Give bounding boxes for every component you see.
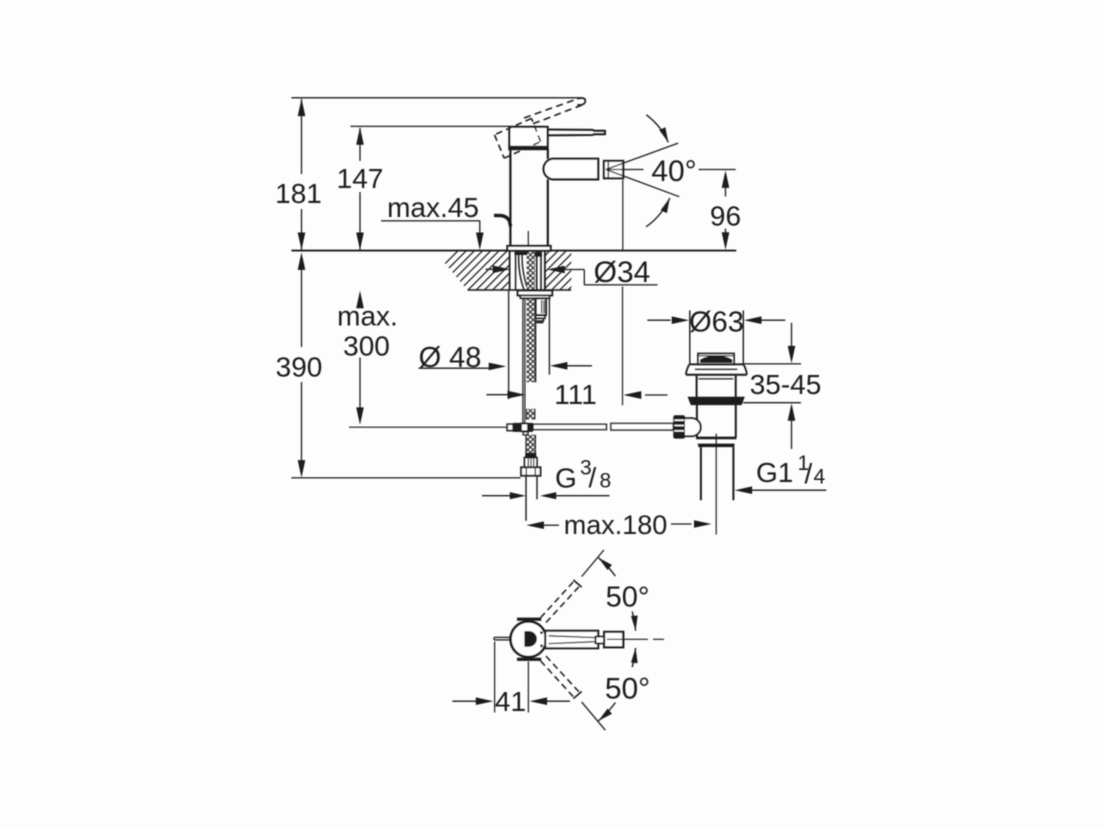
aerator (side view) [604, 161, 623, 178]
plan view upper tube dashed [541, 580, 582, 623]
faucet body right edge lower [547, 179, 549, 246]
svg-text:181: 181 [275, 178, 322, 209]
dim max300 [337, 291, 398, 425]
countertop hatching left of hole [407, 251, 598, 294]
drain body bottom rim [696, 438, 737, 447]
dim G3/8 [482, 492, 610, 499]
faucet base plate [507, 246, 550, 251]
plan view upper tube axis line [582, 550, 604, 577]
supply hose upper (braided) [527, 298, 536, 382]
shank rod guide line [540, 252, 542, 290]
dim 35-45 [743, 323, 821, 449]
countertop surface line [291, 250, 736, 252]
projection line diameter34 to dim111 [622, 287, 624, 406]
pop-up rod at faucet (hook) [494, 215, 511, 226]
faucet body right edge upper [547, 149, 549, 159]
dim max.180 [526, 510, 711, 540]
dim diameter63 [647, 307, 785, 339]
dim G1 1/4 [735, 486, 827, 494]
hose pipe stub right wall [536, 476, 538, 500]
dim 147 extension+arrows [337, 127, 384, 250]
dim 390 [276, 252, 323, 477]
svg-text:147: 147 [337, 163, 384, 194]
projection line spout outlet to deck [622, 180, 624, 251]
dimension line 147 reference (cap top) [350, 125, 509, 127]
plan view centerline [607, 638, 664, 640]
svg-text:8: 8 [600, 470, 612, 493]
pull rod horizontal segment 2 [611, 423, 673, 430]
drain side knob (knurled) [673, 415, 685, 438]
svg-text:4: 4 [814, 466, 826, 489]
plan view spout inner tube [549, 636, 596, 644]
rod connector on shank [536, 298, 546, 322]
svg-text:50°: 50° [606, 582, 650, 614]
shank inner line right [536, 252, 538, 290]
drain centerline [715, 434, 717, 535]
svg-text:G1: G1 [756, 457, 793, 488]
dim max300 reference line / pull rod horizontal [349, 426, 507, 428]
label max.45 with leader [381, 192, 484, 250]
shank sleeve line [515, 252, 517, 290]
lever handle (solid) [547, 130, 605, 136]
lever handle dashed (raised position) - cap outline [495, 118, 541, 158]
threaded shank crosshatch (in deck) [527, 252, 535, 290]
svg-text:Ø63: Ø63 [689, 307, 744, 339]
countertop underside line [468, 289, 572, 291]
plan view lower tube dashed [541, 656, 582, 699]
faucet cap (handle base) [509, 127, 547, 149]
svg-text:max.: max. [337, 301, 398, 332]
drain knob dome [701, 357, 732, 363]
plan view rod stub [494, 637, 510, 640]
locknut [518, 291, 553, 299]
countertop hatching right of hole [507, 251, 665, 294]
dim 50deg lower [598, 648, 650, 721]
svg-text:G: G [555, 463, 577, 494]
svg-text:390: 390 [276, 352, 323, 383]
dim 181 extension+arrows [275, 99, 322, 250]
plan view lower tube axis line [582, 702, 606, 730]
plan view flats [517, 618, 541, 661]
svg-text:/: / [589, 462, 597, 493]
svg-text:41: 41 [495, 686, 526, 717]
plan view body circle [511, 621, 547, 657]
dim 390 bottom reference line [291, 477, 520, 479]
dim 50deg upper [598, 558, 649, 631]
drain body below seal [697, 405, 736, 438]
pull rod horizontal segment 1 [533, 424, 606, 429]
drain neck [697, 376, 736, 398]
dimension line top reference (handle top) [291, 97, 582, 99]
spray fan lower line [606, 170, 679, 197]
40deg lower arc with arrow [646, 198, 670, 227]
hose ferrule band [525, 453, 536, 458]
hose pipe stub left wall [525, 476, 527, 521]
dim 96 [710, 170, 741, 249]
label G1 1/4 [756, 452, 826, 489]
plan view spout stub [596, 637, 607, 644]
hose curve in shank 2 [522, 253, 527, 287]
label 40 degrees [651, 155, 696, 188]
svg-text:50°: 50° [605, 673, 650, 706]
svg-text:max.180: max.180 [564, 510, 668, 540]
drain flange (trumpet) [686, 364, 747, 374]
plan view cartridge D-mark [525, 632, 536, 647]
extension line dia48 left [508, 290, 510, 399]
plan view spout [545, 631, 598, 649]
rod clamp assembly [507, 423, 533, 432]
extension line dia48 right [548, 298, 550, 375]
svg-text:300: 300 [343, 331, 390, 362]
drain side knob joint [685, 418, 701, 436]
svg-text:/: / [805, 458, 813, 489]
svg-text:40°: 40° [651, 155, 696, 188]
40deg upper arc with arrow [646, 115, 668, 143]
dim diameter48 label [419, 342, 593, 374]
pull rod vertical (double line) [523, 298, 525, 424]
svg-text:111: 111 [554, 379, 597, 410]
faucet body left edge [509, 149, 511, 247]
drain tailpipe [701, 447, 734, 500]
svg-text:35-45: 35-45 [750, 369, 822, 400]
hose curve in shank 1 [519, 253, 524, 290]
connector below clamp [523, 432, 528, 435]
plan view aerator [604, 632, 623, 647]
dim 41 [452, 642, 570, 718]
dim 111 [487, 379, 668, 410]
plan view screw dots [540, 631, 543, 647]
faucet body centerline stub [527, 231, 529, 246]
supply hose lower (braided) [526, 435, 536, 453]
label G3/8 [555, 457, 611, 494]
drain rubber seal [688, 397, 744, 404]
lever handle dashed (raised position) - lever lines [524, 98, 585, 124]
spray fan upper line [606, 143, 678, 169]
svg-text:Ø34: Ø34 [594, 256, 651, 289]
hole left wall [509, 252, 511, 290]
dim diameter34 leader [486, 256, 658, 289]
spout (side view) [544, 159, 599, 180]
G3/8 nut [521, 467, 540, 475]
svg-text:max.45: max.45 [387, 192, 479, 223]
svg-text:96: 96 [710, 201, 741, 232]
hose crimp sleeve [525, 458, 537, 468]
hole right wall [544, 252, 546, 290]
spray fan centre line [606, 169, 736, 171]
shank dark marks below deck top [515, 252, 542, 257]
drain pull knob [698, 354, 734, 365]
supply hose mid (braided) [527, 409, 535, 420]
svg-text:Ø 48: Ø 48 [419, 342, 482, 374]
extension lines diameter63 [690, 310, 744, 364]
